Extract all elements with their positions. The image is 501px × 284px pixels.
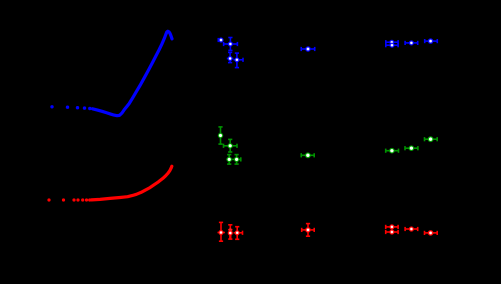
blue data point B7 (386, 43, 398, 48)
blue data point B5 (301, 46, 315, 52)
green data point G7 (405, 145, 418, 151)
red data point R5 (386, 224, 398, 229)
green data point G6 (386, 148, 399, 154)
green data point G4 (232, 155, 241, 165)
red data point R1 (218, 222, 225, 241)
red model curve line (92, 166, 172, 200)
red data point R4 (302, 224, 315, 237)
blue data point B2 (224, 38, 238, 51)
blue data point B3 (227, 52, 234, 62)
blue model curve dots (50, 105, 91, 110)
green data point G2 (224, 139, 238, 152)
green data point G5 (301, 152, 314, 158)
red data point R3 (234, 227, 243, 240)
red data point R6 (386, 229, 398, 234)
green data point G1 (218, 127, 223, 144)
red data point R2 (228, 225, 233, 239)
blue data point B1 (218, 37, 223, 42)
red data point R8 (425, 230, 438, 236)
blue data point B4 (234, 53, 244, 68)
blue data point B6 (386, 40, 398, 45)
red data point R7 (405, 226, 418, 231)
blue data point B8 (405, 40, 418, 45)
green data point G3 (226, 155, 232, 165)
blue model curve line (93, 31, 173, 116)
green data point G8 (425, 136, 438, 142)
blue data point B9 (425, 38, 438, 44)
red model curve dots (47, 198, 91, 201)
